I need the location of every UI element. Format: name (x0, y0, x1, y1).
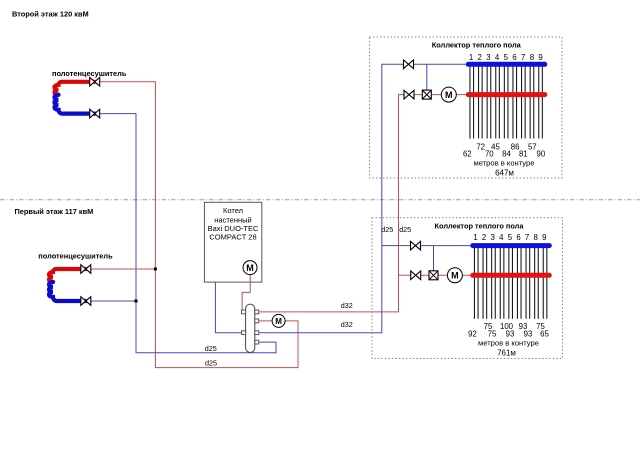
wire: boiler red supply to separator (242, 272, 250, 312)
svg-text:5: 5 (508, 233, 513, 242)
wire: floor1 towel dryer blue branch (86, 300, 136, 302)
wire: floor2 towel dryer red supply trunk (thin red) (95, 82, 298, 368)
collector blue bar (468, 62, 545, 67)
svg-text:93: 93 (524, 329, 533, 338)
svg-text:84: 84 (502, 150, 511, 159)
svg-text:Второй этаж 120 квМ: Второй этаж 120 квМ (12, 10, 89, 19)
svg-text:4: 4 (499, 233, 504, 242)
wire: lower collector blue feed branch (382, 245, 471, 247)
towel dryer floor2 red coil (55, 82, 95, 95)
svg-text:M: M (246, 263, 254, 273)
svg-text:7: 7 (521, 53, 525, 62)
separator port left 3 (242, 331, 246, 335)
loop lengths row1 (484, 322, 546, 331)
wire: floor1 towel dryer red branch (86, 268, 156, 270)
collector box floor1 (372, 218, 563, 359)
valve on floor1 red line (81, 265, 91, 274)
node: junction red trunk / floor1 dryer (154, 268, 157, 271)
svg-text:9: 9 (538, 53, 542, 62)
valve on lower collector red line (411, 271, 421, 280)
svg-text:2: 2 (478, 53, 482, 62)
collector red bar (468, 92, 545, 97)
separator port right 4 (255, 340, 259, 344)
svg-text:3: 3 (491, 233, 495, 242)
svg-text:COMPACT 28: COMPACT 28 (209, 233, 256, 242)
floor separator dashed line (0, 199, 640, 201)
bypass wire blue top collector (426, 64, 428, 90)
svg-text:72: 72 (476, 142, 485, 151)
boiler Котел настенный Baxi DUO-TEC COMPACT 28 (204, 202, 261, 282)
svg-text:d25: d25 (205, 358, 217, 367)
svg-text:Коллектор теплого пола: Коллектор теплого пола (434, 221, 524, 230)
svg-text:M: M (445, 90, 453, 100)
wire: lower collector red feed branch (399, 274, 471, 276)
valve on top collector blue line (404, 60, 414, 69)
valve on lower collector blue line (411, 241, 421, 250)
loop lengths row2 (463, 150, 546, 159)
svg-text:62: 62 (463, 150, 472, 159)
svg-text:7: 7 (525, 233, 529, 242)
svg-text:65: 65 (540, 329, 549, 338)
svg-text:5: 5 (504, 53, 509, 62)
node: junction blue trunk / floor1 dryer (135, 300, 138, 303)
svg-text:Первый этаж 117 квМ: Первый этаж 117 квМ (15, 207, 94, 216)
pump M top collector (441, 87, 456, 102)
pump M lower collector (447, 268, 462, 283)
svg-text:Коллектор теплого пола: Коллектор теплого пола (432, 41, 522, 50)
svg-text:d25: d25 (399, 225, 411, 234)
svg-text:d32: d32 (341, 301, 353, 310)
svg-text:метров в контуре: метров в контуре (478, 339, 539, 348)
loop pipes verticals (470, 66, 542, 139)
towel dryer floor1 red coil (49, 269, 86, 282)
svg-text:d25: d25 (381, 225, 393, 234)
svg-text:настенный: настенный (214, 215, 251, 224)
loop lengths row2 (468, 329, 549, 338)
bypass wire blue lower collector (433, 246, 435, 272)
collector box floor2 (370, 37, 563, 178)
svg-text:92: 92 (468, 329, 477, 338)
svg-text:4: 4 (495, 53, 500, 62)
4-way mixing valve top collector (422, 90, 431, 99)
loop numbers 1-9 (473, 233, 546, 242)
valve on floor2 blue line (90, 109, 100, 118)
separator port right 3 (255, 331, 259, 335)
svg-text:1: 1 (473, 233, 477, 242)
hydraulic separator (246, 304, 255, 352)
valve on top collector red line (404, 90, 414, 99)
loop lengths row1 (476, 142, 536, 151)
svg-text:полотенцесушитель: полотенцесушитель (38, 251, 113, 260)
separator port left top (242, 310, 246, 314)
svg-text:6: 6 (512, 53, 516, 62)
wire: floor2 towel dryer blue return trunk (thin blue) (95, 114, 276, 353)
towel dryer floor1 blue coil (49, 282, 86, 301)
svg-text:d32: d32 (341, 320, 353, 329)
svg-text:75: 75 (488, 329, 497, 338)
wire: blue d32 return collectors trunk to separator (259, 64, 466, 332)
pump M inside boiler (243, 261, 257, 275)
svg-text:81: 81 (519, 150, 528, 159)
svg-text:d25: d25 (205, 344, 217, 353)
valve on floor2 red line (90, 78, 100, 87)
svg-text:8: 8 (530, 53, 534, 62)
towel dryer floor2 blue coil (55, 95, 95, 114)
pump M towel dryer circuit (272, 314, 285, 327)
loop pipes verticals (474, 248, 546, 319)
wire: red d32 supply separator to collectors trunk (259, 95, 466, 312)
collector red bar (473, 273, 550, 278)
separator port right 2 (255, 319, 259, 323)
svg-text:6: 6 (516, 233, 520, 242)
svg-text:9: 9 (542, 233, 546, 242)
wire: boiler blue return from separator (215, 282, 244, 333)
4-way mixing valve lower collector (429, 271, 438, 280)
svg-text:1: 1 (469, 53, 473, 62)
separator port right top (255, 310, 259, 314)
svg-text:70: 70 (485, 150, 494, 159)
loop numbers 1-9 (469, 53, 543, 62)
svg-text:8: 8 (534, 233, 538, 242)
svg-text:M: M (451, 271, 459, 281)
svg-text:2: 2 (482, 233, 486, 242)
collector blue bar (473, 243, 550, 248)
svg-text:90: 90 (537, 150, 546, 159)
svg-text:761м: 761м (497, 348, 516, 357)
svg-text:метров в контуре: метров в контуре (474, 159, 535, 168)
svg-text:93: 93 (506, 329, 515, 338)
svg-text:647м: 647м (495, 168, 514, 177)
svg-text:Котел: Котел (223, 206, 243, 215)
svg-text:3: 3 (486, 53, 490, 62)
svg-text:57: 57 (528, 142, 537, 151)
svg-text:M: M (275, 317, 282, 326)
valve on floor1 blue line (81, 297, 91, 306)
